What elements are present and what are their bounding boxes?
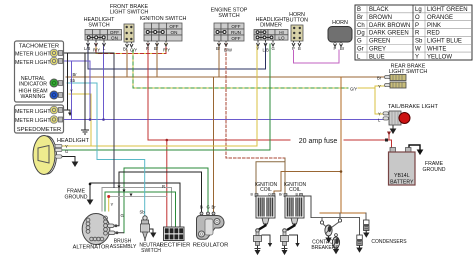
- wire B lower bus to regulator: [119, 172, 202, 226]
- svg-text:RUN: RUN: [231, 30, 241, 35]
- svg-text:DARK BROWN: DARK BROWN: [369, 23, 410, 29]
- wire Br brown bus: [66, 76, 385, 78]
- svg-text:B: B: [298, 46, 301, 51]
- ground meter: [81, 130, 89, 134]
- wire O contact breaker bus: [320, 212, 366, 214]
- wire meter link vertical 2: [71, 61, 73, 120]
- svg-text:G/Y: G/Y: [130, 48, 137, 53]
- wire meter light 4 stub: [63, 119, 72, 121]
- wire Br regulator drop: [213, 77, 215, 213]
- spark plug 1: [254, 229, 262, 249]
- svg-text:Y: Y: [378, 112, 381, 117]
- wire drop to condenser B: [359, 218, 361, 236]
- battery YB14L: [389, 148, 416, 186]
- svg-text:Br: Br: [73, 72, 78, 77]
- svg-text:SWITCH: SWITCH: [141, 248, 161, 254]
- svg-text:B/W: B/W: [224, 48, 232, 53]
- svg-text:W: W: [415, 46, 421, 52]
- svg-text:L/B: L/B: [263, 48, 269, 53]
- horn button pins: [292, 41, 301, 46]
- svg-text:Ch: Ch: [357, 23, 365, 29]
- svg-text:O: O: [415, 15, 420, 21]
- svg-text:Br: Br: [154, 46, 159, 51]
- wire meter light 3 stub: [63, 109, 68, 111]
- rectifier: [160, 227, 191, 249]
- wire meter link stub: [63, 109, 71, 111]
- svg-text:BREAKERS: BREAKERS: [311, 245, 339, 251]
- junction B ground bundle: [89, 183, 92, 186]
- svg-text:TACHOMETER: TACHOMETER: [19, 44, 59, 50]
- svg-text:R: R: [415, 31, 420, 37]
- headlight switch: [84, 17, 122, 40]
- svg-text:SPEEDOMETER: SPEEDOMETER: [17, 127, 61, 133]
- ground battery: [418, 150, 423, 154]
- svg-text:O: O: [268, 193, 271, 197]
- svg-text:LIGHT BLUE: LIGHT BLUE: [427, 39, 462, 45]
- svg-text:G: G: [272, 46, 275, 51]
- svg-text:B: B: [357, 7, 361, 13]
- svg-text:R/Y: R/Y: [163, 48, 170, 53]
- front brake light switch: [110, 4, 149, 42]
- neutral switch: [139, 216, 163, 254]
- connector bullet grey/yellow: [107, 195, 110, 198]
- svg-text:PINK: PINK: [427, 23, 441, 29]
- svg-text:WHITE: WHITE: [427, 46, 446, 52]
- svg-text:Lg: Lg: [415, 7, 422, 13]
- speedometer box: [15, 105, 64, 133]
- contact breaker A terminal: [320, 221, 323, 224]
- svg-text:Y: Y: [111, 202, 114, 207]
- svg-text:ALTERNATOR: ALTERNATOR: [73, 245, 110, 251]
- svg-text:OFF: OFF: [169, 24, 178, 29]
- svg-text:RECTIFIER: RECTIFIER: [160, 243, 191, 249]
- svg-text:ON: ON: [111, 35, 118, 40]
- svg-text:OFF: OFF: [110, 30, 119, 35]
- svg-text:Y: Y: [415, 54, 419, 60]
- wire headlight ground: [62, 157, 75, 162]
- svg-text:BLACK: BLACK: [369, 7, 389, 13]
- wire B ground bundle: [90, 183, 180, 227]
- svg-text:OFF: OFF: [231, 36, 240, 41]
- dimmer pins: [257, 41, 275, 47]
- meter bulb 2: [50, 57, 62, 65]
- engine stop pins: [218, 41, 228, 46]
- svg-text:OFF: OFF: [231, 24, 240, 29]
- svg-text:ORANGE: ORANGE: [427, 15, 453, 21]
- wire Y high beam lamp: [69, 94, 91, 146]
- wire L purple bus to tail light: [103, 44, 105, 120]
- wire meter ground stub: [69, 110, 71, 113]
- svg-text:BROWN: BROWN: [369, 15, 392, 21]
- svg-text:Br: Br: [123, 47, 128, 52]
- wire Y to rear brake switch: [358, 86, 385, 88]
- svg-text:LIGHT SWITCH: LIGHT SWITCH: [110, 10, 149, 16]
- wire R/Y dashed bus: [96, 44, 166, 54]
- svg-text:DARK GREEN: DARK GREEN: [369, 31, 409, 37]
- svg-text:CONDENSERS: CONDENSERS: [371, 239, 407, 245]
- svg-text:BLUE: BLUE: [369, 54, 385, 60]
- wire P horn button to horn: [294, 50, 340, 63]
- ground breaker B: [334, 248, 339, 253]
- ground condenser B: [357, 246, 362, 252]
- svg-text:Y: Y: [378, 84, 381, 89]
- ground spark plug 2: [282, 249, 286, 254]
- wire drop to breaker A terminal 2: [339, 213, 341, 219]
- wire drop to condenser A: [365, 213, 367, 220]
- svg-text:R: R: [162, 184, 165, 189]
- spark plug 2: [281, 229, 289, 249]
- junction O coil feed at loop B: [340, 170, 343, 173]
- ground frame (alternator): [88, 199, 93, 204]
- brush assembly: [108, 224, 137, 250]
- svg-text:P: P: [334, 46, 337, 51]
- svg-text:YELLOW: YELLOW: [427, 54, 452, 60]
- wire R drop to rectifier: [166, 140, 168, 227]
- ignition switch: [140, 16, 187, 41]
- ground plug 1 shell: [268, 243, 272, 247]
- svg-text:METER LIGHT: METER LIGHT: [15, 109, 51, 115]
- svg-text:Br: Br: [216, 46, 221, 51]
- svg-text:LIGHT SWITCH: LIGHT SWITCH: [389, 69, 428, 75]
- wire B points bus: [311, 217, 360, 219]
- svg-text:Y: Y: [257, 46, 260, 51]
- ground meter arrow: [68, 113, 72, 117]
- svg-text:ON: ON: [171, 30, 178, 35]
- wire G alternator to rectifier: [102, 188, 172, 228]
- wire O orange coil feed: [340, 77, 341, 213]
- svg-text:Br: Br: [377, 76, 382, 81]
- wire meter link vertical 1: [67, 53, 69, 110]
- wire B meter to harness vertical: [113, 53, 115, 188]
- svg-text:TAIL/BRAKE LIGHT: TAIL/BRAKE LIGHT: [388, 104, 439, 110]
- wire plug 1 shell ground: [262, 235, 271, 243]
- contact breaker B: [332, 234, 339, 248]
- wire Br front brake drop: [126, 50, 128, 77]
- junction L bus at meter drop: [89, 118, 92, 121]
- svg-text:WARNING: WARNING: [21, 94, 46, 100]
- svg-text:HI: HI: [279, 30, 284, 35]
- alternator: [73, 214, 110, 251]
- svg-text:P: P: [292, 46, 295, 51]
- svg-text:GROUND: GROUND: [422, 167, 445, 173]
- neutral indicator bulb: [50, 79, 63, 87]
- wire battery to frame ground: [409, 145, 420, 150]
- svg-text:Br: Br: [212, 205, 217, 210]
- ground tail light: [391, 125, 396, 133]
- condenser A: [364, 220, 370, 231]
- wire R fuse to battery: [389, 133, 392, 148]
- svg-text:SWITCH: SWITCH: [88, 23, 109, 29]
- ground spark plug 1: [255, 249, 259, 254]
- svg-text:IGNITION SWITCH: IGNITION SWITCH: [140, 16, 187, 22]
- contact breaker A: [325, 225, 332, 236]
- ground breaker A: [326, 236, 331, 242]
- wire B/W dashed kill wire: [226, 44, 285, 158]
- svg-text:SWITCH: SWITCH: [218, 13, 239, 19]
- junction L bus at headlight switch drop: [102, 118, 105, 121]
- wire B meter ground vertical: [84, 53, 86, 130]
- svg-text:Y: Y: [70, 89, 73, 94]
- ignition coil 2: [284, 182, 307, 230]
- junction R fuse line at rectifier drop: [166, 139, 169, 142]
- regulator: [193, 205, 229, 249]
- wire G lower bus to regulator: [124, 168, 208, 233]
- ground neutral switch: [149, 229, 156, 237]
- wire B coil2 to breakers: [301, 196, 311, 218]
- coil pin labels: [251, 193, 299, 197]
- headlight dimmer switch: [254, 17, 288, 40]
- svg-text:GREY: GREY: [369, 46, 386, 52]
- svg-text:Sb: Sb: [70, 78, 76, 83]
- wire Br coil loop A: [256, 162, 285, 194]
- wire Y drop to tail light: [375, 88, 387, 114]
- tachometer box: [15, 41, 64, 102]
- svg-text:INDICATOR: INDICATOR: [19, 82, 47, 88]
- svg-text:Gr: Gr: [357, 46, 364, 52]
- svg-text:RED: RED: [427, 31, 440, 37]
- svg-text:METER LIGHT: METER LIGHT: [15, 60, 51, 66]
- svg-text:L/B: L/B: [84, 46, 90, 51]
- svg-text:METER LIGHT: METER LIGHT: [15, 51, 51, 57]
- wire drop to breaker A terminal: [321, 218, 323, 222]
- svg-text:METER LIGHT: METER LIGHT: [15, 118, 51, 124]
- engine stop switch: [211, 8, 248, 42]
- condenser B: [357, 235, 363, 246]
- svg-text:P: P: [415, 23, 419, 29]
- ignition coil 1: [255, 182, 278, 230]
- horn: [328, 20, 352, 42]
- svg-text:LIGHT GREEN: LIGHT GREEN: [427, 7, 468, 13]
- svg-text:Br: Br: [357, 15, 363, 21]
- headlight switch pins: [87, 41, 106, 47]
- wire G/Y dashed brake bus: [133, 50, 348, 88]
- wire Br ignition drop: [156, 44, 158, 77]
- svg-text:GROUND: GROUND: [64, 195, 87, 201]
- horn pins: [334, 42, 343, 47]
- wire R ignition to fuse: [148, 44, 290, 140]
- svg-text:LO: LO: [278, 35, 285, 40]
- front brake pins: [126, 42, 134, 47]
- svg-text:ASSEMBLY: ASSEMBLY: [110, 244, 137, 250]
- wire meter light 2 stub: [63, 60, 91, 62]
- svg-text:Br: Br: [340, 46, 345, 51]
- svg-text:Sb: Sb: [415, 39, 423, 45]
- svg-text:G/Y: G/Y: [350, 87, 357, 92]
- wire Y into alternator: [108, 199, 110, 212]
- svg-text:20 amp fuse: 20 amp fuse: [299, 138, 338, 145]
- fuse 20 amp: [385, 139, 388, 142]
- ground headlight: [73, 161, 78, 166]
- wire Y dimmer to headlight: [256, 44, 258, 146]
- svg-text:Dg: Dg: [357, 31, 365, 37]
- connector arrows bottom: [118, 186, 133, 197]
- svg-text:G: G: [207, 205, 210, 210]
- svg-text:BATTERY: BATTERY: [390, 180, 414, 186]
- wire Sb light blue to neutral switch: [67, 83, 145, 216]
- meter bulb 1: [50, 49, 62, 57]
- svg-text:R: R: [146, 46, 149, 51]
- svg-text:G: G: [357, 39, 362, 45]
- wire Br engine stop drop: [218, 44, 220, 77]
- ground plug 2 shell: [295, 243, 299, 247]
- wire breaker A lever lead 1: [323, 224, 327, 228]
- wire G dimmer to headlight: [269, 44, 271, 150]
- svg-text:Sb: Sb: [140, 210, 146, 215]
- svg-text:YB14L: YB14L: [394, 173, 410, 179]
- svg-text:REGULATOR: REGULATOR: [193, 243, 229, 249]
- wire L meter vertical: [89, 61, 91, 120]
- svg-text:GREEN: GREEN: [369, 39, 390, 45]
- svg-text:HORN: HORN: [332, 20, 348, 26]
- svg-text:HEADLIGHT: HEADLIGHT: [57, 138, 90, 144]
- svg-text:BUTTON: BUTTON: [286, 18, 308, 24]
- ground condenser A: [364, 231, 369, 237]
- wire breaker A lever lead 2: [332, 222, 340, 228]
- meter bulb 4: [50, 116, 62, 124]
- horn button: [286, 12, 308, 41]
- svg-text:G: G: [121, 213, 124, 218]
- ignition switch pins: [147, 41, 168, 46]
- meter bulb 3: [50, 106, 62, 114]
- high beam warning bulb: [50, 91, 63, 99]
- wire L/B bus (dark blue): [88, 44, 266, 69]
- svg-text:G: G: [65, 149, 68, 154]
- svg-text:B: B: [200, 205, 203, 210]
- wire Br coil loop B: [274, 172, 341, 195]
- wire Gr grey to rectifier: [105, 192, 176, 227]
- svg-text:R/Y: R/Y: [93, 48, 100, 53]
- svg-text:DIMMER: DIMMER: [260, 23, 282, 29]
- wire plug 2 shell ground: [289, 235, 298, 243]
- wire meter light 1 stub: [63, 52, 115, 54]
